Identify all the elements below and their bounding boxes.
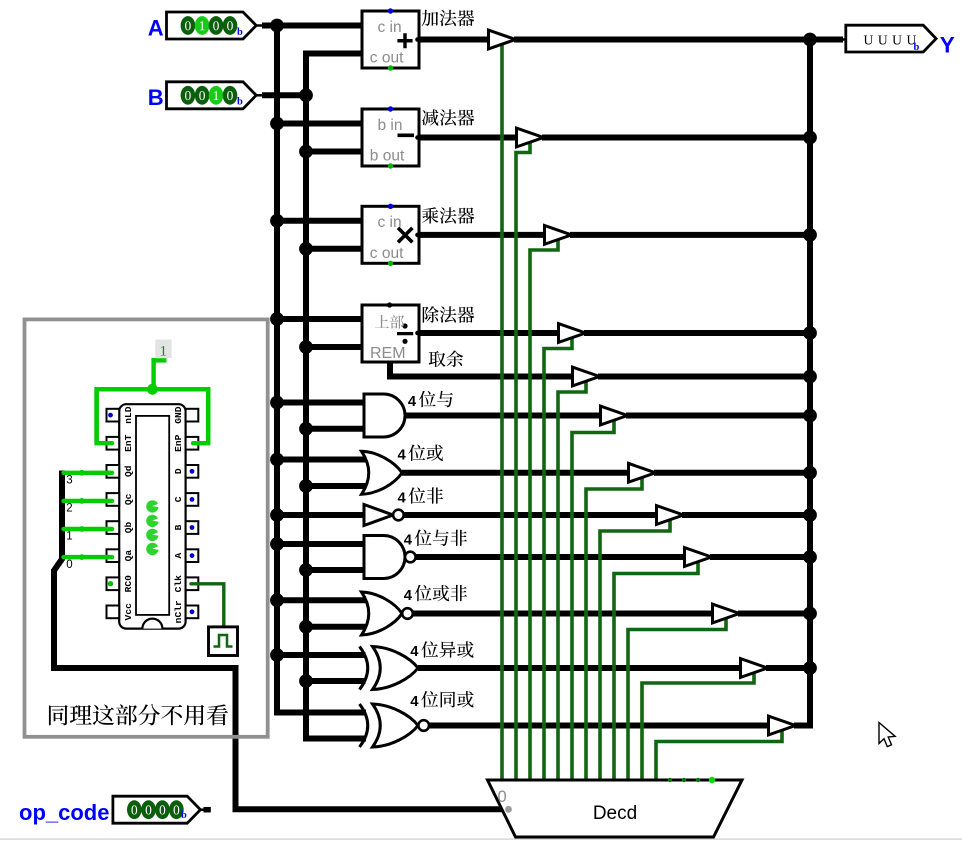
svg-text:B: B (173, 524, 184, 530)
svg-text:4: 4 (404, 533, 413, 549)
svg-text:nClr: nClr (173, 600, 184, 623)
svg-text:Qc: Qc (123, 493, 134, 505)
svg-text:b: b (181, 810, 187, 821)
svg-text:b out: b out (370, 148, 405, 165)
svg-text:Vcc: Vcc (123, 603, 134, 621)
svg-text:c in: c in (378, 214, 402, 231)
svg-text:4: 4 (410, 644, 419, 660)
svg-text:RC0: RC0 (123, 575, 134, 593)
svg-text:Qb: Qb (123, 522, 134, 534)
svg-text:Qd: Qd (123, 465, 134, 477)
svg-text:b in: b in (378, 117, 403, 134)
svg-text:nLD: nLD (123, 406, 134, 424)
svg-text:D: D (173, 468, 184, 474)
svg-text:1: 1 (160, 343, 168, 359)
svg-text:0: 0 (66, 559, 72, 571)
svg-text:Y: Y (940, 32, 955, 57)
svg-text:C: C (173, 496, 184, 502)
svg-text:b: b (914, 42, 920, 53)
svg-text:4: 4 (410, 694, 419, 710)
svg-text:U U U U: U U U U (864, 33, 917, 48)
svg-text:b: b (237, 27, 243, 38)
svg-text:4: 4 (398, 490, 407, 506)
svg-text:Qa: Qa (123, 550, 134, 562)
svg-text:Decd: Decd (593, 803, 637, 824)
svg-text:A: A (148, 15, 164, 40)
svg-text:c out: c out (370, 50, 404, 67)
svg-text:B: B (148, 85, 164, 110)
svg-text:REM: REM (370, 345, 406, 362)
svg-text:Clk: Clk (173, 575, 184, 593)
svg-text:c out: c out (370, 245, 404, 262)
svg-text:EnT: EnT (123, 434, 134, 452)
svg-text:4: 4 (404, 588, 413, 604)
svg-text:c in: c in (378, 19, 402, 36)
svg-text:op_code: op_code (19, 800, 109, 825)
svg-text:1: 1 (66, 531, 72, 543)
svg-text:2: 2 (66, 503, 72, 515)
svg-text:b: b (237, 97, 243, 108)
svg-text:GND: GND (173, 406, 184, 424)
svg-text:3: 3 (66, 475, 72, 487)
svg-text:4: 4 (408, 394, 417, 410)
svg-text:0: 0 (498, 788, 507, 806)
svg-text:EnP: EnP (173, 434, 184, 452)
svg-text:4: 4 (398, 448, 407, 464)
svg-text:A: A (173, 552, 184, 558)
